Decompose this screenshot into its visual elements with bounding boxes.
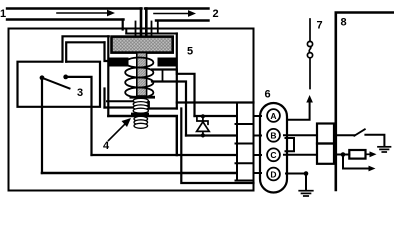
- outer box: [9, 29, 254, 191]
- zener diode D1: [197, 114, 210, 137]
- wire from coil to switch (lower): [66, 42, 104, 61]
- duct drop wall outer-left: [122, 20, 124, 30]
- valve stem: [137, 53, 147, 96]
- coil wire to A (upper right): [152, 70, 195, 117]
- connector 6 capsule: [260, 103, 287, 193]
- valve inlet wall left-inner: [140, 9, 143, 37]
- duct drop stub left: [125, 30, 127, 34]
- valve body bottom ledge left: [107, 100, 134, 102]
- junction dot panel: [341, 152, 346, 157]
- inner valve box top edge: [126, 33, 177, 35]
- ground lead: [305, 174, 307, 191]
- valve inlet wall left-outer: [135, 22, 137, 37]
- svg-text:3: 3: [77, 87, 83, 99]
- air duct 2 bottom wall: [156, 19, 209, 21]
- wire from lower pin into panel: [334, 154, 349, 156]
- panel switch out wire: [365, 135, 384, 146]
- air duct 1 top wall: [7, 7, 142, 9]
- switch terminal right: [63, 75, 68, 80]
- return spring 4 upper: [133, 98, 148, 113]
- spring seat plate: [131, 113, 149, 117]
- svg-text:6: 6: [265, 89, 271, 101]
- wire right-dot to C: [66, 77, 92, 155]
- inner valve box right edge: [176, 34, 178, 109]
- resistor out wire with arrow: [366, 151, 377, 157]
- inner valve box bottom right: [149, 107, 177, 109]
- solenoid armature plate 5: [112, 37, 173, 53]
- connector pin B: [267, 129, 280, 142]
- arrow 2: [154, 10, 196, 17]
- valve inlet wall right-outer: [151, 22, 153, 37]
- arrow to spring 4: [109, 118, 132, 141]
- svg-text:7: 7: [317, 20, 323, 32]
- wire to switch in panel: [334, 134, 354, 136]
- panel switch blade: [354, 129, 365, 136]
- switch terminal left: [40, 75, 45, 80]
- air duct 2 top wall: [145, 7, 209, 9]
- coil winding link bar: [162, 70, 164, 82]
- connector pin A: [267, 109, 280, 122]
- arrow 1: [57, 10, 115, 17]
- svg-text:4: 4: [103, 140, 110, 152]
- wire stub to coil lower terminal: [105, 42, 110, 61]
- valve disc at stem bottom: [130, 96, 156, 99]
- svg-text:8: 8: [341, 17, 347, 29]
- wire from valve box bottom down to bottom wire: [181, 109, 253, 184]
- connector stubs: [254, 116, 262, 173]
- wire B horizontal: [186, 134, 236, 136]
- svg-text:D: D: [270, 169, 276, 179]
- control unit pin box upper: [317, 124, 334, 144]
- svg-text:2: 2: [213, 8, 219, 20]
- wire C to control unit pin: [284, 154, 317, 156]
- control unit pin box lower: [317, 144, 334, 164]
- connector pin D: [267, 168, 280, 181]
- resistance wire 7: [307, 19, 312, 89]
- linkage stub right: [148, 102, 150, 109]
- wire from valve box right to connector top: [177, 101, 254, 103]
- wire B to control unit pin: [284, 134, 317, 136]
- valve body left wall: [107, 36, 109, 116]
- switch blade: [42, 78, 70, 89]
- switch box 3: [18, 62, 101, 107]
- duct 2 drop wall: [157, 21, 159, 34]
- ground symbol left: [299, 191, 313, 196]
- air duct 1 bottom wall: [7, 18, 124, 20]
- svg-text:B: B: [270, 131, 276, 141]
- ground symbol right-top: [378, 147, 391, 152]
- svg-text:A: A: [270, 111, 276, 121]
- solenoid pole piece left (black): [109, 58, 129, 67]
- wire C horizontal: [92, 154, 236, 156]
- wire D horizontal: [42, 172, 236, 175]
- solenoid coil winding loops: [125, 58, 153, 68]
- connector pin C: [267, 148, 280, 161]
- wire D to ground: [286, 173, 306, 175]
- linkage stub left: [103, 89, 105, 108]
- wire left-dot to D: [41, 78, 43, 173]
- branch wire down with arrow: [343, 155, 369, 169]
- coil wire to B (lower right): [152, 82, 186, 136]
- junction dot: [304, 171, 309, 176]
- arrow up to item 7: [306, 95, 313, 103]
- control unit 8 panel edge: [336, 13, 394, 191]
- svg-text:1: 1: [0, 8, 6, 20]
- wire from connector to arrow up: [287, 102, 310, 120]
- terminal block: [236, 103, 254, 181]
- wire from valve body to C-junction: [108, 116, 177, 155]
- inner valve box bottom left: [105, 106, 135, 108]
- solenoid pole piece right (black): [158, 58, 177, 67]
- valve inlet wall right-inner: [145, 9, 148, 37]
- resistor R: [349, 150, 365, 159]
- svg-text:5: 5: [187, 46, 193, 58]
- wire A horizontal: [195, 115, 236, 117]
- svg-text:C: C: [270, 150, 276, 160]
- connector mating tab: [286, 138, 295, 151]
- wire from coil to switch (upper): [63, 36, 109, 61]
- return spring 4 lower: [134, 116, 148, 128]
